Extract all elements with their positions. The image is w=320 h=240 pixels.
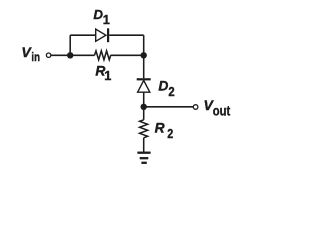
svg-text:R: R	[155, 120, 165, 135]
svg-text:1: 1	[104, 68, 111, 83]
svg-text:1: 1	[103, 12, 110, 27]
svg-text:2: 2	[168, 84, 174, 99]
svg-text:D: D	[158, 78, 168, 93]
svg-text:out: out	[213, 103, 231, 119]
svg-text:in: in	[31, 50, 40, 64]
svg-text:2: 2	[167, 126, 173, 141]
